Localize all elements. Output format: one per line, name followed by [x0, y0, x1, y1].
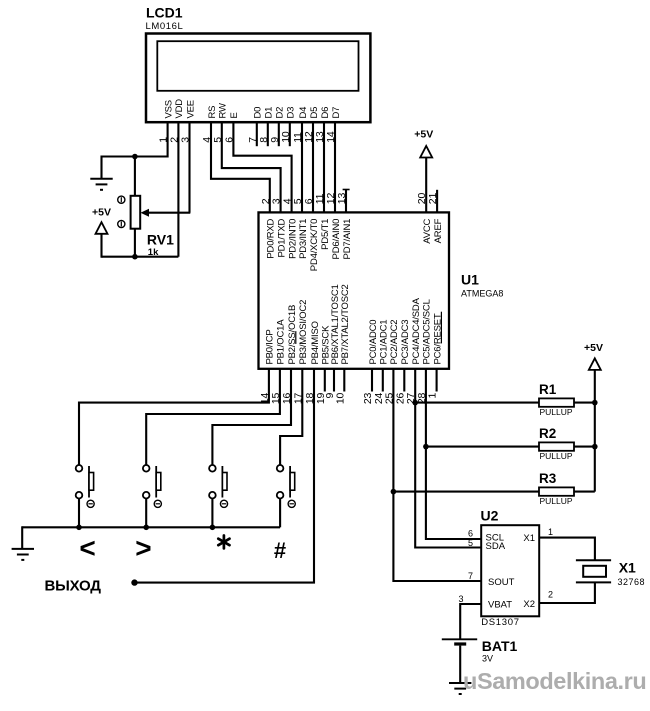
wire bus to ground (bottom-left): [21, 526, 23, 549]
svg-text:21: 21: [427, 193, 439, 205]
stub LCD pin D0 (n.c.): [256, 122, 258, 146]
label * (button 3): [218, 536, 229, 549]
svg-text:E: E: [229, 112, 240, 118]
svg-text:PD3/INT1: PD3/INT1: [298, 219, 309, 259]
svg-text:U1: U1: [461, 272, 479, 288]
svg-text:RV1: RV1: [147, 232, 174, 248]
svg-text:D2: D2: [275, 107, 286, 119]
wire U1 pin15 to button 2: [146, 368, 280, 466]
junction PC5/R2: [423, 444, 429, 450]
svg-text:AREF: AREF: [433, 218, 444, 243]
svg-text:PD1/TXD: PD1/TXD: [276, 218, 287, 257]
svg-text:1: 1: [548, 527, 553, 537]
svg-text:RS: RS: [207, 106, 218, 119]
battery BAT1: [442, 639, 477, 644]
svg-text:ВЫХОД: ВЫХОД: [45, 578, 102, 595]
wire VSS net horizontal: [102, 155, 168, 157]
wire +5V rail (right): [594, 370, 596, 492]
power +5V arrow (top): [420, 146, 432, 158]
wire PC2 to U2 SOUT: [393, 368, 481, 581]
svg-text:D4: D4: [298, 107, 309, 119]
crystal X1: [576, 560, 611, 582]
stub PD7 pin13 (n.c.): [345, 190, 347, 213]
LCD LCD1 outer body: [146, 34, 370, 123]
push button SW4: [277, 465, 295, 499]
RV1 adjust marker (top): [118, 196, 125, 203]
overbar RESET on PC6: [440, 312, 442, 344]
wire R1 right: [574, 402, 595, 404]
wire R2 right: [574, 446, 595, 448]
svg-text:RW: RW: [218, 103, 229, 118]
wire E to PD2 (pin4): [233, 122, 291, 213]
push button SW2: [143, 465, 161, 499]
svg-text:7: 7: [468, 571, 473, 581]
svg-text:PC5/ADC5/SCL: PC5/ADC5/SCL: [422, 299, 433, 364]
wire LCD pin2 VDD vertical: [177, 122, 179, 257]
wire LCD pin3 VEE vertical: [188, 122, 190, 213]
wire U2 VBAT to battery: [460, 604, 481, 639]
wire PC5/SCL to U2 SCL: [426, 368, 481, 539]
svg-text:PB7/XTAL2/TOSC2: PB7/XTAL2/TOSC2: [340, 284, 351, 364]
terminal dot ВЫХОД: [131, 579, 137, 585]
wire D4 to PD3 (pin5): [301, 122, 303, 213]
button SW1 actuation marker: [87, 500, 94, 507]
svg-text:SDA: SDA: [486, 541, 506, 552]
stub U1 PC1 (n.c.): [382, 368, 384, 391]
stub U1 PC6 (n.c.): [436, 368, 438, 391]
svg-text:R3: R3: [539, 471, 557, 486]
stub U1 PB5 (n.c.): [324, 368, 326, 391]
svg-text:D0: D0: [253, 107, 264, 119]
ground (battery): [449, 683, 471, 694]
wire D7 to PD6 (pin12): [334, 122, 336, 213]
resistor R3 body: [539, 487, 574, 495]
junction node pot-bottom/VDD: [132, 254, 138, 260]
svg-text:VEE: VEE: [185, 100, 196, 118]
ground (bottom-left): [12, 549, 34, 560]
wire ВЫХОД to U1 PB4 (pin18): [135, 368, 315, 582]
svg-text:PD4/XCK/T0: PD4/XCK/T0: [309, 219, 320, 271]
svg-text:DS1307: DS1307: [481, 617, 520, 628]
button SW4 actuation marker: [288, 500, 295, 507]
wire AVCC to +5V: [425, 158, 427, 213]
svg-text:PB3/MOSI/OC2: PB3/MOSI/OC2: [298, 300, 309, 365]
svg-text:PB4/MISO: PB4/MISO: [310, 321, 321, 364]
wire button 3 to ground bus: [211, 498, 213, 527]
stub AREF pin21 (n.c.): [436, 190, 438, 213]
wire pot bottom: [134, 228, 136, 257]
wire button 4 to ground bus: [279, 498, 281, 527]
stub U1 PB7 (n.c.): [343, 368, 345, 391]
junction node VSS/pot-top: [132, 154, 138, 160]
push button SW3: [209, 465, 227, 499]
svg-text:+5V: +5V: [92, 206, 111, 218]
junction PC2/R3: [391, 489, 397, 495]
svg-text:PC0/ADC0: PC0/ADC0: [368, 320, 379, 365]
svg-text:VDD: VDD: [174, 99, 185, 119]
wire R3 left: [393, 491, 539, 493]
wire RS to PD0 (pin2): [211, 122, 270, 213]
wire +5V (left) vertical: [100, 234, 102, 258]
svg-text:LM016L: LM016L: [146, 21, 184, 32]
svg-text:AVCC: AVCC: [422, 218, 433, 243]
svg-text:10: 10: [334, 392, 346, 404]
svg-text:PC3/ADC3: PC3/ADC3: [400, 320, 411, 365]
overbar SS on PB2: [295, 331, 297, 344]
svg-text:R2: R2: [539, 426, 556, 441]
wire D6 to PD5 (pin11): [323, 122, 325, 213]
wire RW to PD1 (pin3): [222, 122, 281, 213]
stub U1 PB6 (n.c.): [333, 368, 335, 391]
svg-text:U2: U2: [481, 507, 499, 523]
svg-text:PC4/ADC4/SDA: PC4/ADC4/SDA: [411, 297, 422, 364]
stub U1 PC3 (n.c.): [403, 368, 405, 391]
svg-text:5: 5: [468, 538, 473, 548]
button SW3 actuation marker: [220, 500, 227, 507]
junction button/ground bus: [143, 525, 149, 531]
junction PC4/R1: [412, 400, 418, 406]
wire to ground (left top): [100, 156, 102, 179]
wire LCD pin1 VSS vertical: [167, 122, 169, 158]
svg-text:2: 2: [548, 590, 553, 600]
svg-text:SOUT: SOUT: [488, 577, 515, 588]
button SW2 actuation marker: [154, 500, 161, 507]
wire button 1 to ground bus: [78, 498, 80, 527]
svg-text:<: <: [79, 533, 95, 564]
ground (top-left): [90, 179, 112, 190]
wire RV1 wiper to VEE: [147, 212, 191, 214]
svg-text:PD7/AIN1: PD7/AIN1: [342, 219, 353, 260]
resistor R1 body: [539, 398, 574, 406]
LCD LCD1 display window: [157, 41, 358, 91]
wire crystal to U2 X2: [539, 582, 595, 603]
svg-text:PULLUP: PULLUP: [540, 451, 573, 461]
svg-text:PC1/ADC1: PC1/ADC1: [379, 320, 390, 365]
wire battery to ground: [459, 646, 461, 683]
stub LCD pin D2 (n.c.): [278, 122, 280, 146]
svg-text:1k: 1k: [148, 247, 159, 258]
svg-text:13: 13: [336, 193, 348, 205]
svg-text:PD2/INT0: PD2/INT0: [287, 219, 298, 259]
wire D5 to PD4 (pin6): [312, 122, 314, 213]
wire PC4/SDA to U2 SDA: [415, 368, 481, 547]
svg-text:32768: 32768: [618, 577, 646, 587]
svg-text:PD6/AIN0: PD6/AIN0: [331, 219, 342, 260]
wire U2 X1 to crystal: [539, 538, 595, 561]
svg-text:BAT1: BAT1: [482, 638, 518, 654]
svg-text:X1: X1: [523, 533, 535, 544]
svg-text:3V: 3V: [482, 654, 493, 664]
svg-text:>: >: [135, 533, 151, 564]
power +5V arrow (left): [96, 222, 108, 234]
junction button/ground bus: [210, 525, 216, 531]
wire R1 left: [415, 402, 539, 404]
svg-text:D3: D3: [286, 107, 297, 119]
svg-text:1: 1: [427, 392, 439, 398]
wire R2 left: [426, 446, 539, 448]
svg-text:X1: X1: [619, 560, 636, 576]
RV1 adjust marker (bottom): [118, 220, 125, 227]
svg-text:uSamodelkina.ru: uSamodelkina.ru: [463, 668, 646, 694]
svg-text:VSS: VSS: [163, 100, 174, 118]
resistor R2 body: [539, 442, 574, 450]
svg-text:LCD1: LCD1: [146, 5, 183, 21]
wire U1 pin16 to button 3: [212, 368, 291, 466]
svg-text:PULLUP: PULLUP: [540, 407, 573, 417]
tick pin13 stub end: [343, 189, 350, 191]
svg-text:PD5/T1: PD5/T1: [320, 219, 331, 250]
wire VDD net horizontal: [102, 256, 179, 258]
svg-text:#: #: [274, 538, 286, 563]
svg-text:ATMEGA8: ATMEGA8: [461, 289, 503, 299]
svg-text:PD0/RXD: PD0/RXD: [266, 218, 277, 258]
svg-text:+5V: +5V: [414, 128, 433, 140]
stub LCD pin D1 (n.c.): [267, 122, 269, 146]
svg-text:PB0/ICP: PB0/ICP: [265, 329, 276, 364]
svg-text:D5: D5: [309, 107, 320, 119]
RV1 wiper arrowhead: [141, 209, 150, 217]
wire ground bus: [22, 526, 280, 528]
stub LCD pin D3 (n.c.): [289, 122, 291, 146]
wire button 2 to ground bus: [145, 498, 147, 527]
IC U1 ATMEGA8 body: [259, 212, 450, 368]
wire U1 pin17 to button 4: [280, 368, 302, 466]
wire pot top: [134, 157, 136, 197]
power +5V arrow (right): [589, 358, 601, 370]
svg-text:D1: D1: [264, 107, 275, 119]
svg-text:D6: D6: [320, 107, 331, 119]
wire R3 right: [574, 491, 595, 493]
svg-text:PC2/ADC2: PC2/ADC2: [389, 320, 400, 365]
junction +5V/R2: [592, 444, 598, 450]
svg-text:+5V: +5V: [584, 342, 603, 354]
svg-text:PULLUP: PULLUP: [540, 496, 573, 506]
IC U2 DS1307 body: [481, 525, 539, 616]
wire U1 pin14 to button 1: [79, 368, 269, 466]
svg-text:D7: D7: [331, 107, 342, 119]
potentiometer RV1 body: [131, 196, 141, 229]
svg-text:X2: X2: [523, 599, 535, 610]
svg-text:R1: R1: [539, 382, 557, 397]
svg-text:3: 3: [458, 594, 463, 604]
junction +5V/R1: [592, 400, 598, 406]
svg-text:VBAT: VBAT: [488, 600, 512, 611]
push button SW1: [76, 465, 94, 499]
junction button/ground bus: [76, 525, 82, 531]
stub U1 PC0 (n.c.): [371, 368, 373, 391]
svg-text:PB1/OC1A: PB1/OC1A: [276, 319, 287, 365]
